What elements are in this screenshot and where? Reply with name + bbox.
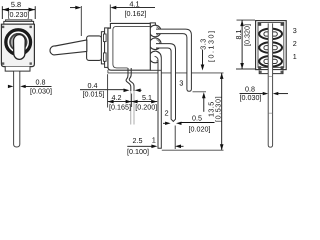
front bottom step <box>5 67 30 72</box>
dimension 5.1 [0.200] <box>132 93 158 111</box>
dimension 4.2 [0.165] <box>108 74 132 111</box>
svg-text:[0.230]: [0.230] <box>8 10 30 19</box>
side body inner line <box>113 26 150 68</box>
pin 3 (bent) <box>156 29 191 91</box>
terminal bump 3 <box>149 25 161 37</box>
terminal oval 3 <box>259 29 282 40</box>
body bottom line under bump 1 <box>150 69 161 71</box>
svg-text:[0.130]: [0.130] <box>206 30 215 62</box>
washer <box>101 32 104 64</box>
dimension 0.8 [0.030] back <box>240 85 289 103</box>
svg-text:1: 1 <box>152 135 156 144</box>
back corner mark bottom-right <box>281 66 284 69</box>
toggle lever side <box>50 40 87 55</box>
terminal oval 1 <box>259 56 282 67</box>
dimension 4.1 [0.162] <box>70 0 155 36</box>
pin 1 (bent) <box>155 51 162 148</box>
front body <box>1 24 34 66</box>
back bottom step <box>259 70 283 73</box>
pin 1 end extension line <box>162 149 224 151</box>
svg-text:5.1: 5.1 <box>142 93 152 102</box>
dimension 8.1 [0.320] <box>234 20 255 69</box>
back corner mark top-right <box>281 23 284 26</box>
corner mark top-left <box>2 26 4 28</box>
svg-text:[0.162]: [0.162] <box>125 9 147 18</box>
top-right ledge <box>150 23 155 29</box>
corner mark bottom-left <box>2 62 4 64</box>
support peg with S-bend <box>126 68 134 125</box>
dimension 0.8 [0.030] front <box>8 78 52 96</box>
svg-text:2.5: 2.5 <box>133 136 143 145</box>
svg-text:4.1: 4.1 <box>129 0 139 8</box>
dimension 13.5 [0.530] <box>206 73 223 150</box>
corner mark bottom-right <box>30 62 32 64</box>
dimension 5.8 [0.230] <box>2 0 35 19</box>
svg-text:[0.200]: [0.200] <box>135 102 157 111</box>
svg-text:[0.030]: [0.030] <box>240 93 262 102</box>
extension line seat plane <box>108 72 224 74</box>
dimension 0.4 [0.015] <box>80 81 142 99</box>
svg-text:0.5: 0.5 <box>192 114 202 123</box>
svg-text:0.8: 0.8 <box>36 78 46 87</box>
toggle lever front <box>14 35 26 60</box>
svg-text:2: 2 <box>293 39 297 48</box>
side body <box>108 23 150 70</box>
svg-text:2: 2 <box>165 109 169 118</box>
back body <box>256 21 287 70</box>
front flange <box>4 20 34 24</box>
svg-text:3: 3 <box>293 26 297 35</box>
corner mark top-right <box>30 26 32 28</box>
svg-text:5.8: 5.8 <box>11 0 21 9</box>
svg-text:0.4: 0.4 <box>88 81 98 90</box>
front plate <box>104 28 110 68</box>
terminal bump 1 <box>149 51 161 63</box>
svg-text:[0.015]: [0.015] <box>83 90 105 99</box>
svg-text:[0.100]: [0.100] <box>127 147 149 156</box>
svg-text:3: 3 <box>179 79 183 88</box>
svg-text:[0.320]: [0.320] <box>242 24 251 46</box>
pin 3 end extension line <box>193 91 207 93</box>
pin 2 (bent) <box>156 44 176 122</box>
bushing side <box>87 36 102 61</box>
back corner mark bottom-left <box>258 66 261 69</box>
dimension 0.5 [0.020] <box>163 114 215 134</box>
back corner mark top-left <box>258 23 261 26</box>
svg-text:[0.030]: [0.030] <box>30 87 52 96</box>
terminal bump 2 <box>149 38 161 50</box>
bushing rings <box>6 30 31 55</box>
svg-text:[0.165]: [0.165] <box>109 102 131 111</box>
back center rod / pin <box>268 23 272 147</box>
svg-text:1: 1 <box>293 52 297 61</box>
front pin <box>14 72 20 148</box>
svg-text:[0.020]: [0.020] <box>189 124 211 133</box>
terminal oval 2 <box>259 42 282 53</box>
dimension 3.3 [0.130] <box>199 30 216 112</box>
dimension 2.5 [0.100] <box>127 126 183 156</box>
